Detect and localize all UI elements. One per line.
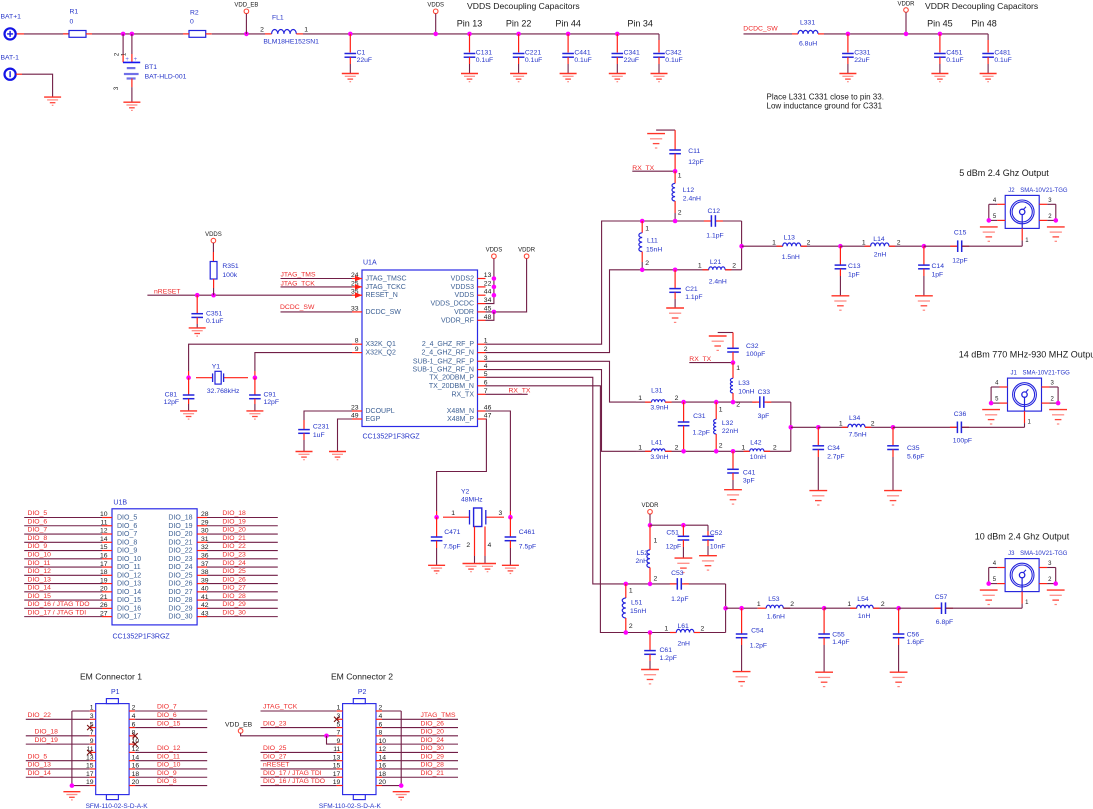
junction R351 on nRESET (211, 293, 216, 298)
wire Y2 right stub (509, 511, 511, 517)
svg-text:SMA-10V21-TGG: SMA-10V21-TGG (1020, 188, 1068, 194)
svg-text:R2: R2 (190, 10, 199, 17)
svg-text:DIO_19: DIO_19 (222, 518, 246, 525)
junction C61 (648, 630, 653, 635)
svg-text:JTAG_TMSC: JTAG_TMSC (366, 276, 407, 283)
junction C41 (731, 449, 736, 454)
inductor L12 (674, 171, 676, 183)
ground under Y2 pin2 (463, 564, 480, 572)
svg-text:36: 36 (201, 553, 209, 560)
wire DCDC_SW to L331 (744, 33, 793, 35)
junction L12 bottom (673, 219, 678, 224)
wire Y1 right node (254, 371, 256, 378)
U1B pin 20 wire (DIO_14) (24, 591, 102, 593)
svg-text:C33: C33 (758, 389, 771, 396)
svg-text:DIO_28: DIO_28 (421, 762, 445, 769)
capacitor C14 ground wire (923, 269, 925, 276)
svg-text:DIO_9: DIO_9 (117, 548, 137, 555)
svg-text:CC1352P1F3RGZ: CC1352P1F3RGZ (363, 434, 421, 441)
connector J1 SMA (1008, 378, 1042, 411)
svg-text:13: 13 (484, 272, 492, 279)
svg-text:2: 2 (645, 260, 649, 267)
capacitor C1 ground wire (349, 57, 351, 64)
svg-text:0.1uF: 0.1uF (476, 57, 493, 64)
capacitor C331 (847, 34, 849, 53)
svg-text:SFM-110-02-S-D-A-K: SFM-110-02-S-D-A-K (319, 803, 382, 809)
svg-text:C351: C351 (206, 310, 222, 317)
svg-text:C32: C32 (746, 343, 759, 350)
ground under C331 (839, 74, 856, 82)
ground under P2 (393, 792, 410, 800)
wire VDDR to L52 node (649, 514, 651, 525)
svg-text:33: 33 (351, 305, 359, 312)
junction L32 top (714, 400, 719, 405)
svg-text:12pF: 12pF (688, 159, 704, 166)
svg-text:DIO_22: DIO_22 (168, 548, 192, 555)
wire P1 pin 14 (DIO_11) (129, 760, 135, 762)
svg-text:2: 2 (719, 442, 723, 449)
junction RX_TX/C11/L12 (673, 169, 678, 174)
svg-text:DIO_16 / JTAG TDO: DIO_16 / JTAG TDO (28, 601, 90, 608)
U1A pin 25 stub (352, 286, 362, 288)
svg-text:EGP: EGP (366, 416, 381, 423)
capacitor C342 ground wire (658, 57, 660, 64)
inductor L61 (670, 632, 676, 634)
capacitor C481 ground wire (987, 57, 989, 64)
svg-text:38: 38 (201, 569, 209, 576)
ground under C1 (342, 74, 359, 82)
P2 pin 7 stub (VDD_EB) (337, 735, 343, 737)
svg-text:C341: C341 (624, 49, 640, 56)
J2 right ground (1047, 227, 1065, 241)
svg-text:DIO_21: DIO_21 (222, 535, 246, 542)
wire VDD_EB to P2 pin9 (327, 736, 337, 744)
inductor L34 (842, 426, 848, 428)
wire pin6 riser to 10dBm (486, 386, 626, 633)
wire P2 pin 10 (DIO_24) (376, 743, 382, 745)
resistor R2 (189, 31, 206, 38)
U1B pin 43 wire (DIO_30) (207, 616, 278, 618)
svg-text:FL1: FL1 (272, 14, 284, 21)
wire subG ground arm (718, 332, 733, 334)
J3 left ground (980, 590, 998, 604)
svg-text:L53: L53 (768, 596, 780, 603)
ground under C55 (815, 672, 833, 686)
U1A pin 23 stub (352, 410, 362, 412)
U1A pin 4 stub (478, 369, 486, 371)
svg-text:0.1uF: 0.1uF (994, 57, 1011, 64)
svg-text:L14: L14 (873, 236, 885, 243)
U1B pin 10 wire (DIO_5) (24, 517, 102, 519)
U1A pin 3 stub (478, 360, 486, 362)
U1A pin 1 stub (478, 343, 486, 345)
svg-text:2: 2 (678, 210, 682, 217)
U1B pin 27 wire (DIO_17 / JTAG TDI) (24, 616, 102, 618)
U1A pin 24 stub (352, 278, 362, 280)
svg-text:1.2pF: 1.2pF (671, 596, 688, 603)
svg-text:5.6pF: 5.6pF (907, 454, 924, 461)
svg-text:15nH: 15nH (630, 608, 646, 615)
wire C32 to RX_TX node (732, 352, 734, 363)
svg-text:DIO_20: DIO_20 (168, 531, 192, 538)
svg-text:1: 1 (451, 510, 455, 517)
svg-text:C14: C14 (932, 263, 945, 270)
svg-text:1: 1 (629, 587, 633, 594)
J1 left ground junction (989, 401, 994, 406)
P2 pin 2 ground bus wire (376, 710, 382, 712)
svg-text:DIO_11: DIO_11 (28, 560, 51, 567)
svg-text:DIO_27: DIO_27 (222, 585, 246, 592)
junction VDD_EB pins 7/9 (324, 734, 329, 739)
wire DCDC_SW to pin33 (281, 311, 353, 313)
capacitor C441 (567, 34, 569, 53)
svg-text:DIO_9: DIO_9 (28, 543, 48, 550)
svg-text:22uF: 22uF (854, 57, 870, 64)
capacitor C32 (732, 333, 734, 348)
no-connect X P1 pin 10 (133, 742, 138, 747)
capacitor C451 ground wire (939, 57, 941, 64)
ground under C61 (641, 670, 659, 684)
svg-text:3pF: 3pF (743, 478, 755, 485)
svg-text:0.1uF: 0.1uF (574, 57, 591, 64)
junction C441 (566, 32, 571, 37)
svg-text:DIO_24: DIO_24 (421, 737, 445, 744)
svg-text:1: 1 (638, 395, 642, 402)
svg-text:SMA-10V21-TGG: SMA-10V21-TGG (1023, 371, 1071, 377)
wire P2 pin 1 (JTAG_TCK) (261, 710, 337, 712)
junction Y2 pin3/C461 (508, 515, 513, 520)
capacitor C57 (934, 607, 942, 609)
wire P2 pin 8 (DIO_20) (376, 735, 382, 737)
svg-text:DIO_28: DIO_28 (168, 597, 192, 604)
svg-text:C35: C35 (907, 445, 920, 452)
svg-text:37: 37 (201, 561, 209, 568)
power symbol VDDS (R351) (211, 238, 216, 243)
svg-text:C31: C31 (693, 413, 706, 420)
capacitor C13 ground wire (839, 269, 841, 276)
wire L12 to top rail (674, 201, 676, 213)
U1B pin 31 wire (DIO_21) (207, 541, 278, 543)
svg-text:L42: L42 (750, 439, 762, 446)
inductor L51 (625, 584, 627, 598)
U1B pin 15 wire (DIO_9) (24, 550, 102, 552)
wire X48M_P pin47 (437, 419, 487, 511)
svg-text:DIO_16: DIO_16 (117, 605, 141, 612)
wire P1 pin 9 (DIO_19) (26, 743, 90, 745)
inductor L331 (792, 33, 798, 35)
wire EGP to ground (338, 419, 353, 452)
svg-text:Pin 44: Pin 44 (555, 19, 581, 29)
junction battery pin2 (121, 32, 126, 37)
wire VDDR rail (486, 259, 527, 312)
svg-text:DIO_13: DIO_13 (117, 581, 141, 588)
wire C14 to C15 (924, 245, 958, 247)
capacitor C56 ground wire (898, 638, 900, 645)
svg-text:10nH: 10nH (738, 388, 754, 395)
svg-text:VDDR Decoupling Capacitors: VDDR Decoupling Capacitors (925, 1, 1038, 11)
svg-text:4: 4 (488, 542, 492, 549)
svg-text:14: 14 (100, 536, 108, 543)
junction C31 bottom (681, 449, 686, 454)
J1 right ground junction (1056, 401, 1061, 406)
ground above C11 (647, 134, 665, 148)
svg-text:C231: C231 (313, 424, 329, 431)
svg-text:DIO_27: DIO_27 (168, 589, 192, 596)
wire L53 to C55 (783, 607, 824, 609)
junction L33 bottom (731, 400, 736, 405)
capacitor C14 (923, 246, 925, 265)
svg-text:DIO_18: DIO_18 (168, 515, 192, 522)
junction Y1 pin1/C81 (186, 375, 191, 380)
P2 pin 9 stub (VDD_EB) (337, 743, 343, 745)
junction VDDR/L52/C51 (648, 523, 653, 528)
capacitor C231 (303, 420, 305, 429)
ground under C221 (510, 74, 527, 82)
J1 pin 2 stub (1042, 402, 1050, 404)
power symbol VDD_EB (244, 9, 249, 14)
svg-text:DIO_15: DIO_15 (157, 720, 181, 727)
svg-text:DIO_23: DIO_23 (168, 556, 192, 563)
wire C56 to C57 (899, 607, 942, 609)
svg-text:SUB-1_GHZ_RF_P: SUB-1_GHZ_RF_P (413, 358, 474, 365)
svg-text:DIO_18: DIO_18 (222, 510, 246, 517)
wire 10dBm output row (726, 607, 758, 609)
svg-text:28: 28 (201, 511, 209, 518)
svg-text:19: 19 (100, 577, 108, 584)
U1A pin 2 stub (478, 352, 486, 354)
svg-text:DIO_14: DIO_14 (28, 585, 52, 592)
capacitor C55 ground wire (823, 638, 825, 645)
wire P2 pin 19 (DIO_16 / JTAG TDO) (261, 785, 337, 787)
svg-text:C41: C41 (743, 470, 756, 477)
U1B pin 40 wire (DIO_27) (207, 591, 278, 593)
svg-text:C91: C91 (264, 391, 277, 398)
J1 right ground wire (1057, 387, 1059, 403)
U1A pin 45 stub (478, 311, 486, 313)
svg-text:DIO_11: DIO_11 (117, 564, 141, 571)
svg-text:DIO_11: DIO_11 (157, 753, 180, 760)
svg-text:VDD_EB: VDD_EB (225, 722, 253, 729)
svg-text:TX_20DBM_P: TX_20DBM_P (429, 374, 474, 381)
svg-text:X32K_Q1: X32K_Q1 (366, 341, 396, 348)
svg-text:Pin 45: Pin 45 (927, 19, 953, 29)
capacitor C51 (682, 525, 684, 536)
svg-text:2: 2 (871, 420, 875, 427)
J3 pin 1 wire (1021, 578, 1023, 592)
svg-text:DIO_26: DIO_26 (222, 576, 246, 583)
U1A pin 13 stub (478, 278, 486, 280)
capacitor C56 (898, 608, 900, 633)
wire corner down to C481 (987, 34, 989, 40)
wire P2 pin 17 (DIO_17 / JTAG TDI) (261, 776, 337, 778)
svg-text:DIO_26: DIO_26 (168, 581, 192, 588)
capacitor C35 (892, 427, 894, 445)
no-connect X P1 pin 5 (87, 725, 92, 730)
wire BAT-1 to ground (16, 73, 22, 75)
svg-text:2: 2 (701, 626, 705, 633)
svg-text:18: 18 (100, 569, 108, 576)
svg-text:100k: 100k (222, 272, 237, 279)
svg-text:1.5nH: 1.5nH (782, 254, 800, 261)
junction subG output tap (789, 425, 794, 430)
capacitor C81 ground wire (188, 399, 190, 404)
svg-text:17: 17 (100, 561, 108, 568)
svg-text:DIO_23: DIO_23 (222, 552, 246, 559)
svg-text:EM Connector 1: EM Connector 1 (80, 672, 142, 682)
svg-text:48MHz: 48MHz (461, 497, 483, 504)
svg-text:VDDR: VDDR (518, 248, 536, 254)
J3 right ground junction (1053, 581, 1058, 586)
svg-text:C342: C342 (665, 49, 681, 56)
svg-text:L13: L13 (784, 235, 796, 242)
ground under EGP (329, 452, 346, 460)
U1A pin 35 stub (352, 294, 362, 296)
svg-text:20: 20 (100, 586, 108, 593)
wire P2 ground bus (400, 711, 402, 786)
svg-text:DIO_7: DIO_7 (157, 704, 177, 711)
junction C221 (516, 32, 521, 37)
power symbol VDDS (U1A rail) (492, 254, 497, 259)
wire C34 to L34 (818, 426, 848, 428)
svg-text:L33: L33 (738, 380, 750, 387)
capacitor C61 ground wire (649, 654, 651, 661)
svg-text:22: 22 (484, 280, 492, 287)
U1B pin 38 wire (DIO_25) (207, 574, 278, 576)
capacitor C221 (518, 34, 520, 53)
svg-text:44: 44 (484, 289, 492, 296)
capacitor C21 (674, 270, 676, 288)
wire P2 pin 18 (DIO_21) (376, 776, 382, 778)
svg-text:C52: C52 (710, 530, 723, 537)
svg-text:RESET_N: RESET_N (366, 292, 398, 299)
svg-text:VDDR_RF: VDDR_RF (441, 317, 474, 324)
wire 2.4G ground arm (656, 129, 675, 131)
svg-text:L11: L11 (647, 238, 658, 245)
capacitor C15 (950, 245, 958, 247)
svg-text:DIO_10: DIO_10 (117, 556, 141, 563)
capacitor C91 (254, 378, 256, 395)
svg-text:L31: L31 (651, 387, 663, 394)
svg-text:C13: C13 (848, 263, 861, 270)
junction C1 (348, 32, 353, 37)
wire R2 to FL1 (212, 33, 265, 35)
svg-text:C451: C451 (946, 49, 962, 56)
svg-text:R351: R351 (222, 263, 238, 270)
U1B pin 30 wire (DIO_20) (207, 533, 278, 535)
svg-text:SMA-10V21-TGG: SMA-10V21-TGG (1020, 551, 1068, 557)
svg-text:J3: J3 (1008, 551, 1015, 557)
svg-text:16: 16 (100, 553, 108, 560)
svg-text:100pF: 100pF (746, 351, 765, 358)
wire subG top rail (636, 401, 652, 403)
svg-text:DIO_10: DIO_10 (28, 552, 52, 559)
battery BT1 pin2 wire (122, 34, 124, 54)
svg-text:1.2pF: 1.2pF (693, 430, 710, 437)
svg-text:DIO_12: DIO_12 (28, 568, 52, 575)
svg-text:L34: L34 (849, 415, 861, 422)
svg-text:49: 49 (351, 413, 359, 420)
ground under P1 (63, 792, 80, 800)
wire X48M_N pin46 (486, 411, 511, 511)
wire nRESET to pin35 (147, 294, 352, 296)
svg-text:DIO_8: DIO_8 (28, 535, 48, 542)
U1B pin 14 wire (DIO_8) (24, 541, 102, 543)
svg-text:43: 43 (201, 610, 209, 617)
svg-text:DIO_29: DIO_29 (222, 601, 246, 608)
wire P2 pin 4 (JTAG_TMS) (376, 718, 382, 720)
wire X32K_Q1 pin8 (189, 344, 352, 371)
J3 right ground wire (1055, 568, 1057, 584)
svg-text:DIO_28: DIO_28 (222, 593, 246, 600)
svg-text:32: 32 (201, 544, 209, 551)
inductor L42 (744, 450, 750, 452)
svg-text:DIO_30: DIO_30 (421, 745, 445, 752)
svg-text:C21: C21 (685, 286, 698, 293)
J3 pin 3 stub (1039, 567, 1047, 569)
svg-text:DCDC_SW: DCDC_SW (366, 309, 402, 316)
capacitor C41 (732, 451, 734, 469)
P1 pin 10 no-connect stub (129, 743, 135, 745)
J1 pin 1 wire (1024, 397, 1026, 411)
svg-text:DIO_13: DIO_13 (28, 576, 52, 583)
wire P1 pin 17 (DIO_14) (26, 776, 90, 778)
wire P1 pin 6 (DIO_15) (129, 727, 135, 729)
svg-text:0: 0 (190, 19, 194, 26)
svg-text:L54: L54 (857, 596, 869, 603)
svg-text:1.2pF: 1.2pF (750, 642, 767, 649)
svg-text:X48M_N: X48M_N (447, 408, 474, 415)
svg-text:1.6nH: 1.6nH (767, 614, 785, 621)
svg-text:DIO_6: DIO_6 (28, 518, 48, 525)
wire pin4 riser to subG (486, 370, 637, 452)
svg-text:10: 10 (100, 511, 108, 518)
svg-text:DIO_17 / JTAG TDI: DIO_17 / JTAG TDI (28, 609, 87, 616)
svg-text:DIO_6: DIO_6 (117, 523, 137, 530)
ground under C21 (666, 308, 684, 322)
P2 pin 3 no-connect stub (337, 718, 343, 720)
svg-text:1: 1 (698, 263, 702, 270)
svg-text:C331: C331 (854, 49, 870, 56)
resistor R1 (63, 33, 69, 35)
U1B pin 12 wire (DIO_7) (24, 533, 102, 535)
svg-text:DIO_9: DIO_9 (157, 770, 177, 777)
P1 pin 8 no-connect stub (129, 735, 135, 737)
svg-text:DIO_25: DIO_25 (168, 572, 192, 579)
svg-text:10nH: 10nH (750, 454, 766, 461)
svg-text:DIO_6: DIO_6 (157, 712, 177, 719)
svg-text:DIO_19: DIO_19 (35, 737, 59, 744)
op-amp U1A CC1352P1F3RGZ main IC (362, 270, 478, 427)
wire FL1 to VDDS rail (303, 33, 659, 35)
junction C55 (822, 606, 827, 611)
junction C331 (846, 32, 851, 37)
ground under C51 (675, 558, 693, 572)
svg-text:21: 21 (100, 594, 108, 601)
svg-text:JTAG_TMS: JTAG_TMS (281, 271, 316, 278)
P1 pin 11 no-connect stub (90, 751, 96, 753)
wire corner down to C342 (658, 34, 660, 40)
wire VDDS rail (486, 259, 494, 304)
J2 right ground wire (1055, 204, 1057, 220)
svg-text:DIO_29: DIO_29 (421, 753, 445, 760)
wire corner to C52 (707, 525, 709, 531)
J2 pin 3 stub (1039, 203, 1047, 205)
inductor L13 (777, 245, 783, 247)
junction C341 (615, 32, 620, 37)
U1B pin 18 wire (DIO_12) (24, 574, 102, 576)
inductor L33 (732, 363, 734, 379)
svg-text:DIO_7: DIO_7 (117, 531, 137, 538)
